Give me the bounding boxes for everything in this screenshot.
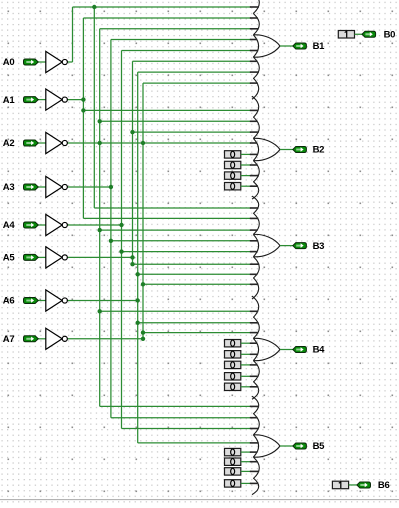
svg-text:A6: A6 [3, 296, 15, 307]
svg-text:A7: A7 [3, 334, 15, 345]
svg-text:A5: A5 [3, 253, 16, 264]
svg-text:A3: A3 [3, 182, 15, 193]
svg-text:A0: A0 [3, 57, 15, 68]
svg-text:B6: B6 [378, 480, 390, 491]
svg-text:B0: B0 [384, 29, 396, 40]
svg-text:B2: B2 [313, 145, 325, 156]
svg-text:B1: B1 [313, 41, 326, 52]
svg-text:A2: A2 [3, 138, 15, 149]
svg-text:A4: A4 [3, 220, 16, 231]
svg-text:A1: A1 [3, 95, 16, 106]
svg-text:B5: B5 [313, 441, 326, 452]
svg-text:B4: B4 [313, 345, 326, 356]
svg-text:B3: B3 [313, 241, 325, 252]
